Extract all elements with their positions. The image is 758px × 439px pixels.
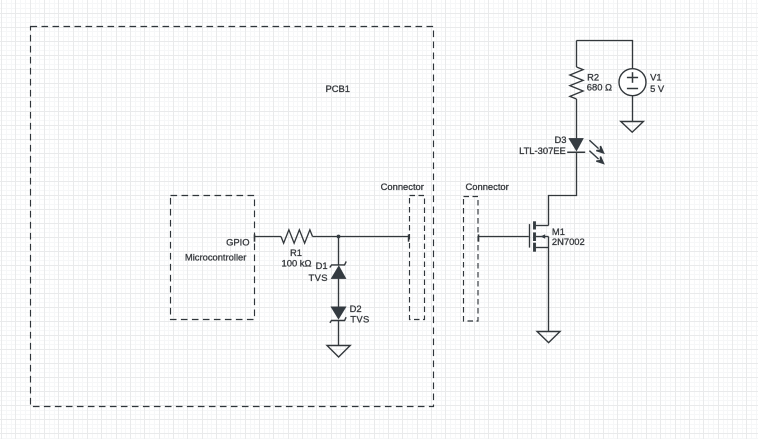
svg-text:PCB1: PCB1 xyxy=(326,83,351,94)
svg-text:TVS: TVS xyxy=(350,314,369,325)
svg-text:680 Ω: 680 Ω xyxy=(587,82,612,93)
svg-text:GPIO: GPIO xyxy=(226,236,249,247)
svg-text:D3: D3 xyxy=(555,134,567,145)
svg-text:2N7002: 2N7002 xyxy=(552,236,585,247)
svg-text:Microcontroller: Microcontroller xyxy=(185,251,246,262)
svg-text:Connector: Connector xyxy=(466,181,509,192)
svg-text:D1: D1 xyxy=(316,260,328,271)
svg-text:TVS: TVS xyxy=(308,272,327,283)
svg-text:Connector: Connector xyxy=(381,181,424,192)
svg-text:R1: R1 xyxy=(290,247,302,258)
svg-text:D2: D2 xyxy=(350,303,362,314)
svg-text:5 V: 5 V xyxy=(650,83,665,94)
svg-text:V1: V1 xyxy=(650,72,661,83)
svg-text:100 kΩ: 100 kΩ xyxy=(282,258,312,269)
svg-text:LTL-307EE: LTL-307EE xyxy=(519,145,566,156)
